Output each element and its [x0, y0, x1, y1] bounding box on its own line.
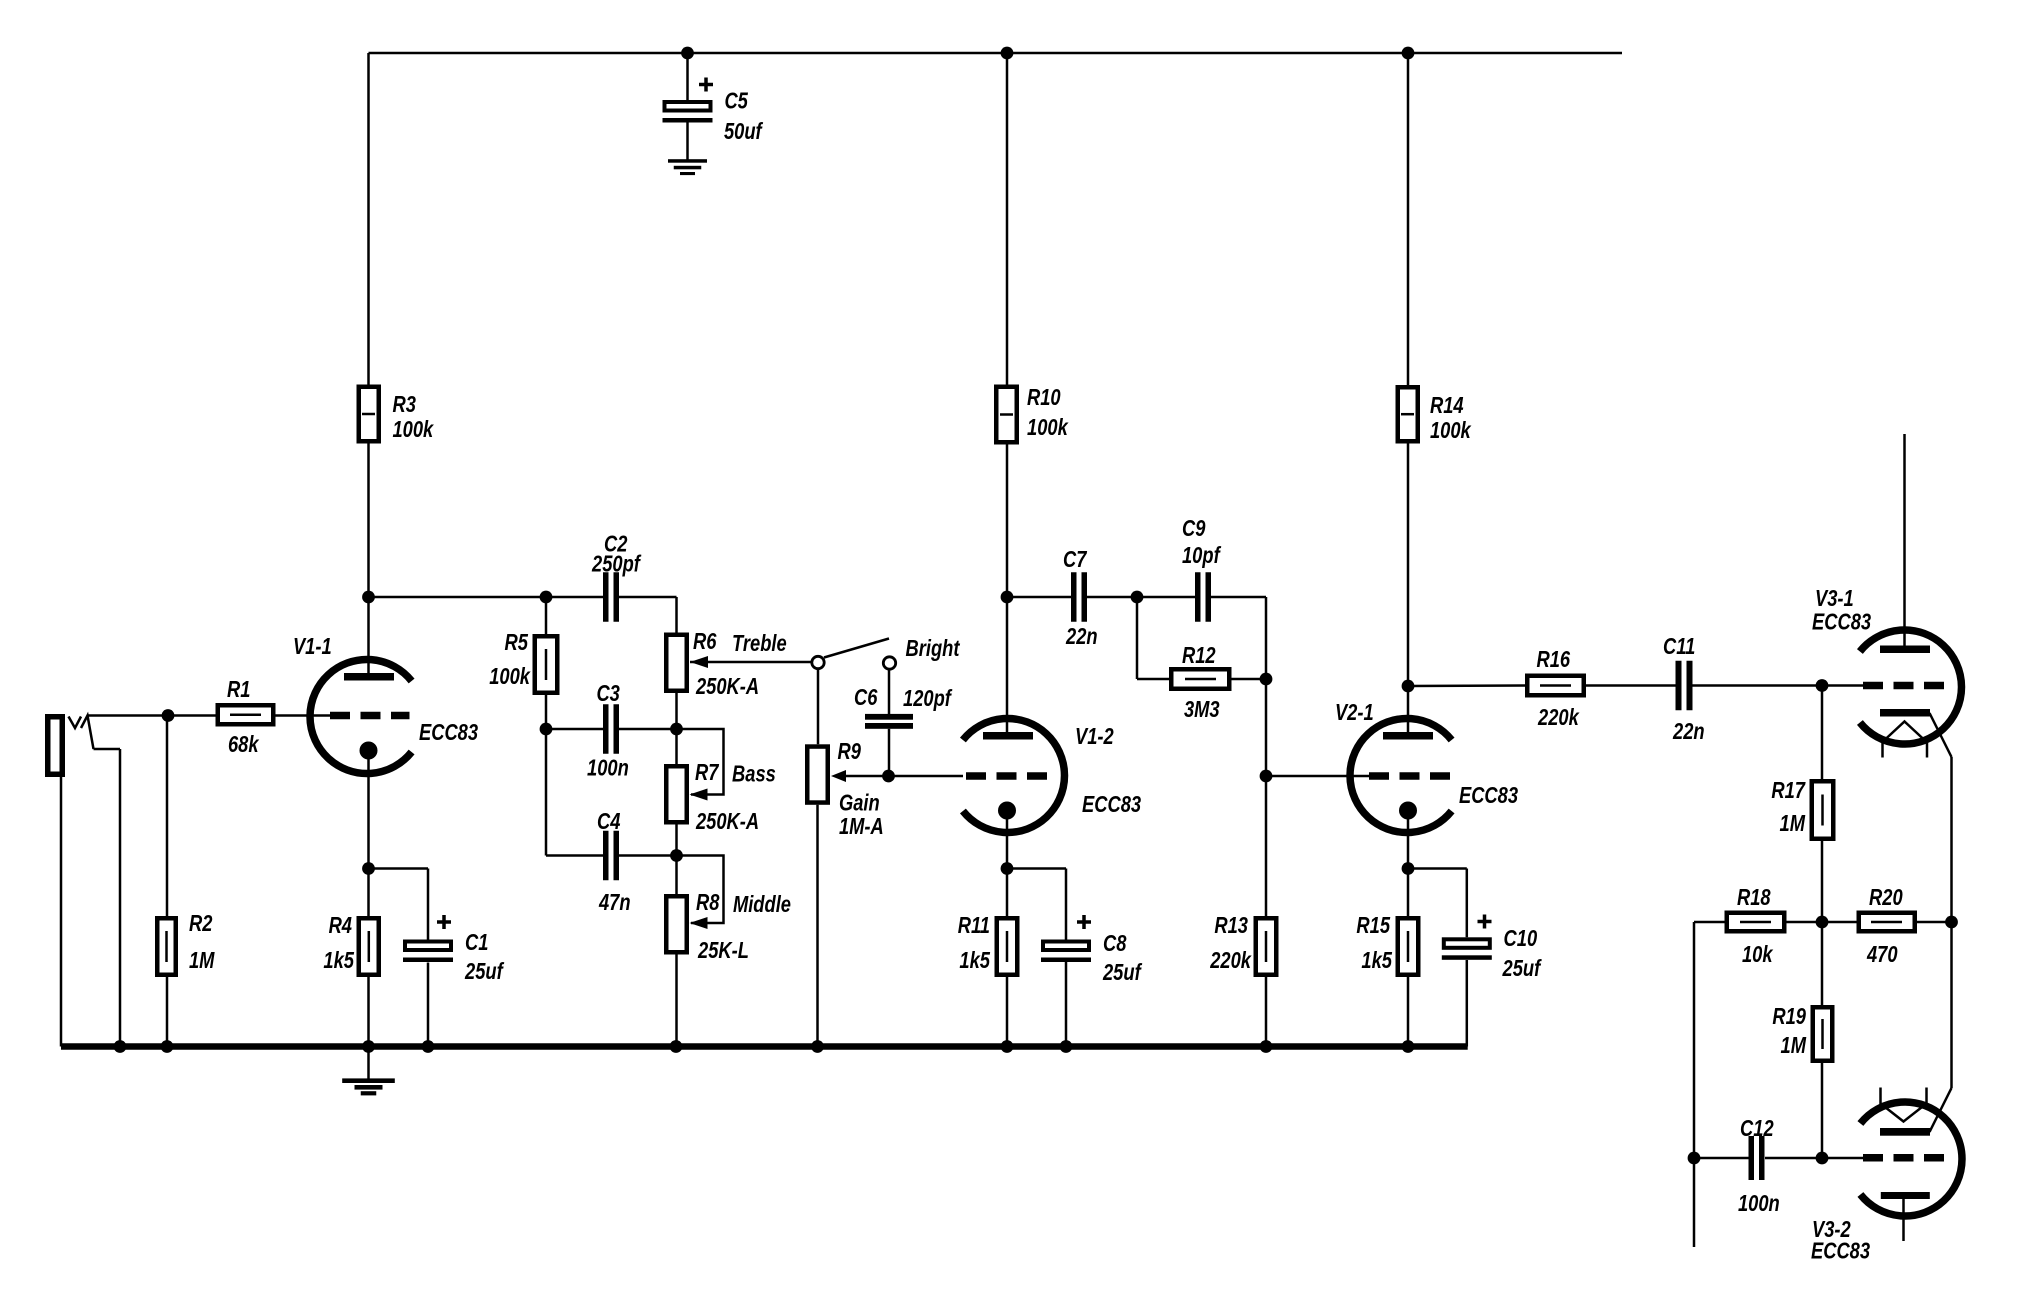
svg-text:120pf: 120pf: [903, 686, 953, 712]
svg-text:R6: R6: [693, 629, 717, 655]
svg-text:47n: 47n: [598, 890, 630, 916]
svg-text:R8: R8: [696, 890, 720, 916]
svg-text:C9: C9: [1182, 516, 1206, 542]
svg-text:100n: 100n: [1738, 1191, 1780, 1217]
svg-text:ECC83: ECC83: [1459, 783, 1518, 809]
svg-text:ECC83: ECC83: [1082, 792, 1141, 818]
svg-text:R14: R14: [1430, 393, 1464, 419]
svg-text:R1: R1: [227, 677, 250, 703]
svg-text:220k: 220k: [1537, 705, 1580, 731]
svg-text:C6: C6: [854, 685, 878, 711]
svg-text:100k: 100k: [489, 664, 531, 690]
svg-text:10pf: 10pf: [1182, 543, 1221, 569]
svg-text:C4: C4: [597, 809, 621, 835]
svg-text:ECC83: ECC83: [1811, 1238, 1870, 1264]
svg-text:470: 470: [1866, 942, 1898, 968]
svg-text:R20: R20: [1869, 885, 1903, 911]
svg-text:25uf: 25uf: [1102, 960, 1142, 986]
svg-text:50uf: 50uf: [724, 119, 763, 145]
svg-text:R16: R16: [1537, 647, 1571, 673]
svg-text:1M: 1M: [1781, 1033, 1807, 1059]
svg-text:Middle: Middle: [733, 892, 791, 918]
svg-text:C5: C5: [724, 88, 748, 114]
svg-text:ECC83: ECC83: [419, 720, 478, 746]
svg-text:Bright: Bright: [906, 636, 961, 662]
svg-text:100n: 100n: [587, 755, 629, 781]
svg-text:C7: C7: [1063, 547, 1088, 573]
svg-text:100k: 100k: [1027, 415, 1069, 441]
svg-text:C12: C12: [1740, 1116, 1774, 1142]
svg-text:R4: R4: [329, 913, 353, 939]
svg-text:25uf: 25uf: [464, 959, 504, 985]
svg-text:10k: 10k: [1742, 942, 1774, 968]
svg-text:3M3: 3M3: [1184, 697, 1220, 723]
svg-text:250K-A: 250K-A: [695, 809, 759, 835]
svg-text:R18: R18: [1737, 885, 1771, 911]
svg-text:R13: R13: [1214, 913, 1248, 939]
svg-text:Gain: Gain: [839, 790, 880, 816]
svg-text:R5: R5: [505, 630, 529, 656]
svg-text:R7: R7: [695, 760, 720, 786]
svg-text:ECC83: ECC83: [1812, 609, 1871, 635]
svg-text:C1: C1: [465, 930, 488, 956]
svg-text:V2-1: V2-1: [1335, 700, 1374, 726]
svg-text:68k: 68k: [228, 732, 260, 758]
svg-text:V1-1: V1-1: [293, 634, 332, 660]
svg-text:100k: 100k: [1430, 418, 1472, 444]
svg-text:C10: C10: [1504, 926, 1538, 952]
svg-text:R3: R3: [392, 392, 416, 418]
svg-text:R10: R10: [1027, 385, 1061, 411]
svg-text:R15: R15: [1356, 913, 1390, 939]
svg-text:1k5: 1k5: [323, 948, 354, 974]
svg-text:R11: R11: [958, 913, 990, 939]
svg-text:1k5: 1k5: [959, 948, 990, 974]
svg-text:100k: 100k: [392, 417, 434, 443]
svg-text:1k5: 1k5: [1361, 948, 1392, 974]
svg-text:22n: 22n: [1065, 624, 1097, 650]
svg-text:V1-2: V1-2: [1075, 724, 1114, 750]
svg-text:250pf: 250pf: [591, 551, 641, 577]
svg-text:R9: R9: [837, 739, 861, 765]
svg-text:R2: R2: [189, 911, 213, 937]
svg-text:1M-A: 1M-A: [839, 814, 884, 840]
svg-text:R17: R17: [1771, 778, 1806, 804]
svg-text:R19: R19: [1772, 1004, 1806, 1030]
svg-text:1M: 1M: [1780, 811, 1806, 837]
svg-text:Treble: Treble: [732, 631, 787, 657]
svg-text:C11: C11: [1663, 634, 1695, 660]
svg-text:25K-L: 25K-L: [697, 938, 749, 964]
svg-text:1M: 1M: [189, 948, 215, 974]
svg-text:C3: C3: [596, 681, 620, 707]
svg-text:C8: C8: [1103, 931, 1127, 957]
svg-text:22n: 22n: [1672, 719, 1704, 745]
svg-text:220k: 220k: [1209, 948, 1252, 974]
svg-text:V3-1: V3-1: [1815, 586, 1854, 612]
svg-text:Bass: Bass: [732, 761, 776, 787]
svg-text:250K-A: 250K-A: [695, 674, 759, 700]
svg-text:R12: R12: [1182, 643, 1216, 669]
svg-text:25uf: 25uf: [1502, 956, 1542, 982]
